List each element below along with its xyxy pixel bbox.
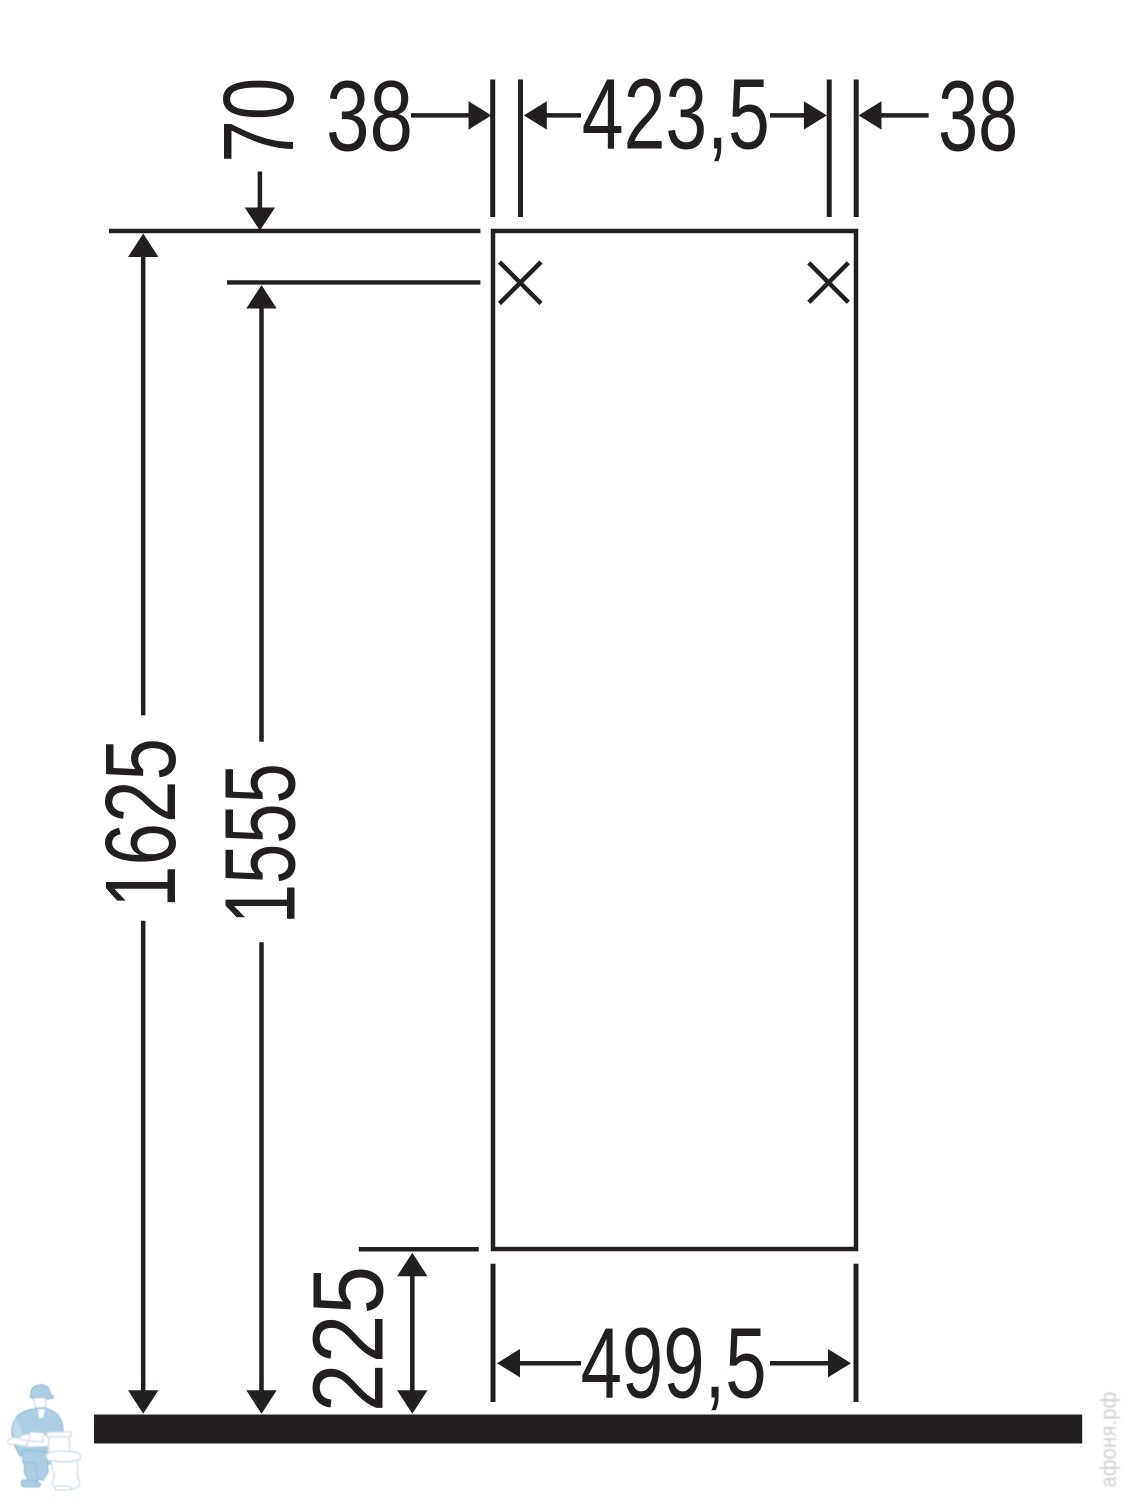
- dim arrow 38 right: [881, 113, 929, 118]
- extension tick 3: [827, 80, 832, 218]
- left sleeve highlight: [13, 1418, 23, 1442]
- arrow 70 down: [258, 172, 263, 209]
- svg-text:38: 38: [938, 61, 1018, 173]
- toilet base: [55, 1486, 71, 1490]
- svg-text:499,5: 499,5: [581, 1308, 767, 1420]
- dim line 225 (double arrow): [410, 1274, 415, 1392]
- torso jacket: [12, 1408, 63, 1464]
- reference line 1625 level: [109, 229, 480, 234]
- dim arrow 499,5 right: [770, 1361, 828, 1366]
- extension tick 499,5 left: [491, 1264, 496, 1402]
- dim line 1555: [259, 308, 264, 742]
- extension tick 499,5 right: [854, 1264, 859, 1402]
- toilet bowl: [51, 1460, 80, 1490]
- shoe: [21, 1480, 40, 1487]
- dim arrow 38 left: [411, 113, 470, 118]
- mounting cross right: [809, 263, 849, 303]
- shirt front: [38, 1409, 45, 1418]
- svg-text:38: 38: [326, 61, 413, 173]
- toilet tank lid: [47, 1432, 71, 1437]
- cap: [30, 1385, 53, 1399]
- dim arrow 423,5 left: [545, 113, 581, 118]
- mounting cross left: [500, 262, 542, 304]
- svg-text:афоня.рф: афоня.рф: [1096, 1392, 1121, 1488]
- cabinet outline: [493, 231, 856, 1249]
- svg-text:225: 225: [293, 1266, 405, 1413]
- dim arrow 499,5 left: [520, 1361, 581, 1366]
- reference line 225 level: [359, 1247, 479, 1252]
- toilet tank: [48, 1437, 70, 1453]
- leg: [24, 1462, 38, 1482]
- floor bar: [94, 1415, 1082, 1444]
- face: [34, 1398, 46, 1409]
- wrench: [8, 1437, 28, 1446]
- dim line 1625: [141, 256, 146, 715]
- extension tick 4: [854, 80, 859, 218]
- toilet seat: [47, 1451, 81, 1462]
- extension tick 2: [518, 80, 523, 218]
- extension tick 1: [490, 80, 495, 218]
- white forearm band / cuff: [16, 1434, 56, 1447]
- reference line 1555 level: [227, 280, 480, 284]
- svg-text:1555: 1555: [204, 763, 316, 924]
- dim arrow 423,5 right: [770, 113, 804, 118]
- svg-text:70: 70: [203, 78, 315, 163]
- svg-text:1625: 1625: [85, 738, 197, 908]
- svg-text:423,5: 423,5: [582, 59, 770, 171]
- paper in hands: [29, 1432, 44, 1442]
- overalls / coat lower: [22, 1450, 48, 1480]
- plumber watermark: [8, 1385, 81, 1490]
